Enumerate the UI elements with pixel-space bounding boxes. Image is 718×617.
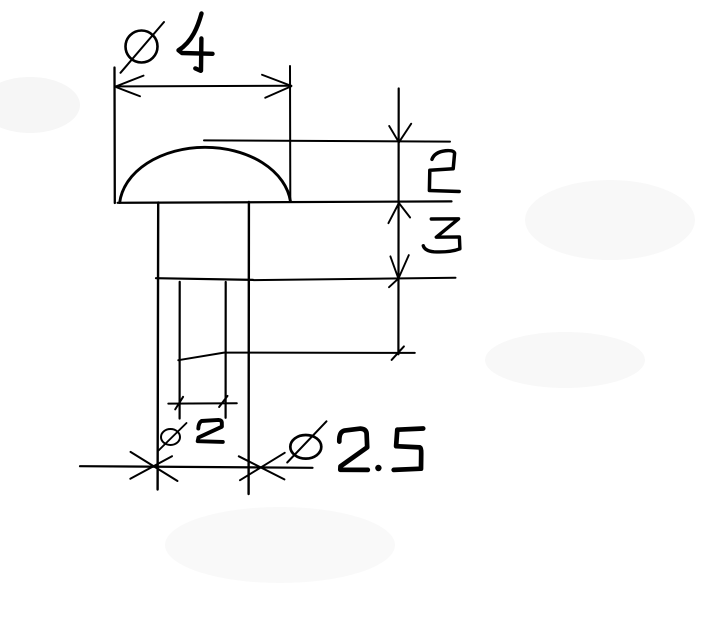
- line bottom of body right extent (3 dim lower): [254, 278, 456, 280]
- hole inner right line: [225, 282, 227, 418]
- label Ø4 diameter symbol: [121, 22, 165, 73]
- tick right of Ø2: [219, 396, 227, 407]
- arrow cross right of Ø2.5: [239, 453, 285, 480]
- line base of head: [118, 201, 452, 202]
- arrowhead right of Ø4: [262, 75, 291, 98]
- scan background smudges: [0, 77, 695, 583]
- label 4 digit: [179, 14, 213, 71]
- arrowhead up at head base line: [388, 203, 410, 223]
- extension line right of Ø4: [289, 66, 291, 202]
- arrowhead left of Ø4: [116, 76, 144, 97]
- label 3 body height: [423, 219, 460, 252]
- arrowhead down at body bottom line: [389, 255, 409, 287]
- label 2 head height: [429, 151, 459, 192]
- dimension line Ø4: [116, 85, 292, 88]
- label 2 of 2.5: [339, 429, 368, 470]
- tick at hole depth line: [392, 346, 404, 360]
- body left edge / Ø2.5 extension: [156, 203, 159, 490]
- body right edge / Ø2.5 extension: [247, 202, 250, 494]
- vertical dimension line for 2 and 3: [397, 89, 400, 355]
- label Ø2 diameter symbol: [159, 423, 187, 451]
- label 5 of 2.5: [394, 429, 424, 470]
- hole inner left line: [179, 282, 181, 419]
- tick left of Ø2: [175, 397, 183, 410]
- arrowhead down at top line: [389, 124, 411, 143]
- dimension line Ø2: [168, 402, 237, 404]
- hole depth slanted line: [178, 353, 414, 361]
- dimension line Ø2.5: [80, 466, 313, 468]
- extension line left of Ø4: [113, 68, 116, 204]
- label decimal point of 2.5: [375, 465, 381, 471]
- arrow cross left of Ø2.5: [130, 452, 177, 481]
- rivet dome head outline: [120, 147, 291, 202]
- line top of head (2 dim upper extent): [204, 140, 450, 141]
- label Ø2.5 diameter symbol: [287, 421, 326, 462]
- label 2 hole diameter digit: [198, 420, 223, 442]
- body bottom line: [156, 278, 253, 280]
